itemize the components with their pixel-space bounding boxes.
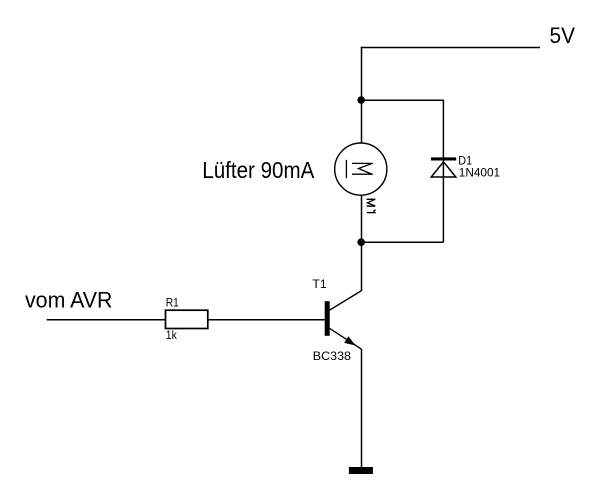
- svg-text:1N4001: 1N4001: [459, 166, 501, 180]
- svg-text:1k: 1k: [166, 329, 177, 342]
- svg-text:vom AVR: vom AVR: [25, 288, 113, 313]
- svg-text:R1: R1: [166, 297, 179, 310]
- svg-text:Lüfter 90mA: Lüfter 90mA: [202, 157, 314, 183]
- svg-text:BC338: BC338: [313, 349, 352, 363]
- svg-text:5V: 5V: [550, 23, 576, 48]
- svg-text:T1: T1: [312, 278, 326, 291]
